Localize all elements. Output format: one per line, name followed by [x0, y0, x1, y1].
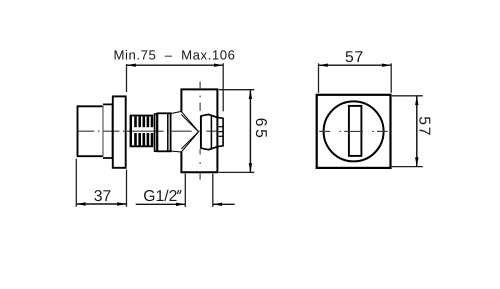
svg-text:G1/2: G1/2: [143, 188, 177, 205]
svg-text:57: 57: [345, 49, 364, 66]
svg-text:65: 65: [252, 118, 269, 141]
svg-text:Min.75 – Max.106: Min.75 – Max.106: [113, 48, 235, 63]
svg-text:57: 57: [415, 116, 432, 137]
svg-text:37: 37: [94, 188, 111, 205]
